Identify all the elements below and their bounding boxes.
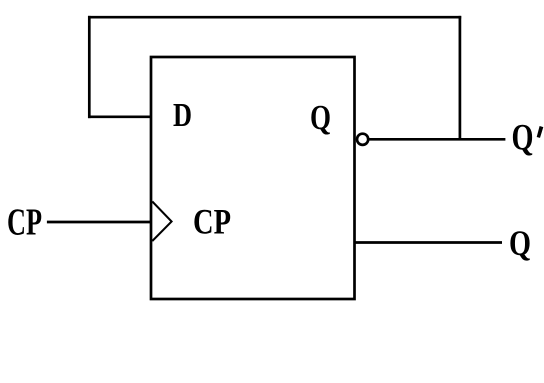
svg-text:Q: Q xyxy=(512,118,534,159)
svg-text:D: D xyxy=(173,97,192,134)
inversion bubble xyxy=(357,134,368,145)
wire: feedback top horizontal xyxy=(88,16,461,19)
wire: Q' output xyxy=(368,138,505,141)
clock edge triangle xyxy=(152,202,171,242)
svg-text:CP: CP xyxy=(193,202,231,242)
wire: feedback left vertical xyxy=(88,16,91,118)
svg-text:Q: Q xyxy=(509,223,531,263)
wire: CP input xyxy=(47,221,151,224)
wire: feedback into D input xyxy=(88,115,151,118)
wire: Q output xyxy=(355,241,503,244)
flip-flop U1 body xyxy=(151,57,355,299)
wire: feedback right vertical xyxy=(459,16,462,139)
svg-text:CP: CP xyxy=(7,202,42,244)
svg-text:Q: Q xyxy=(310,98,331,137)
